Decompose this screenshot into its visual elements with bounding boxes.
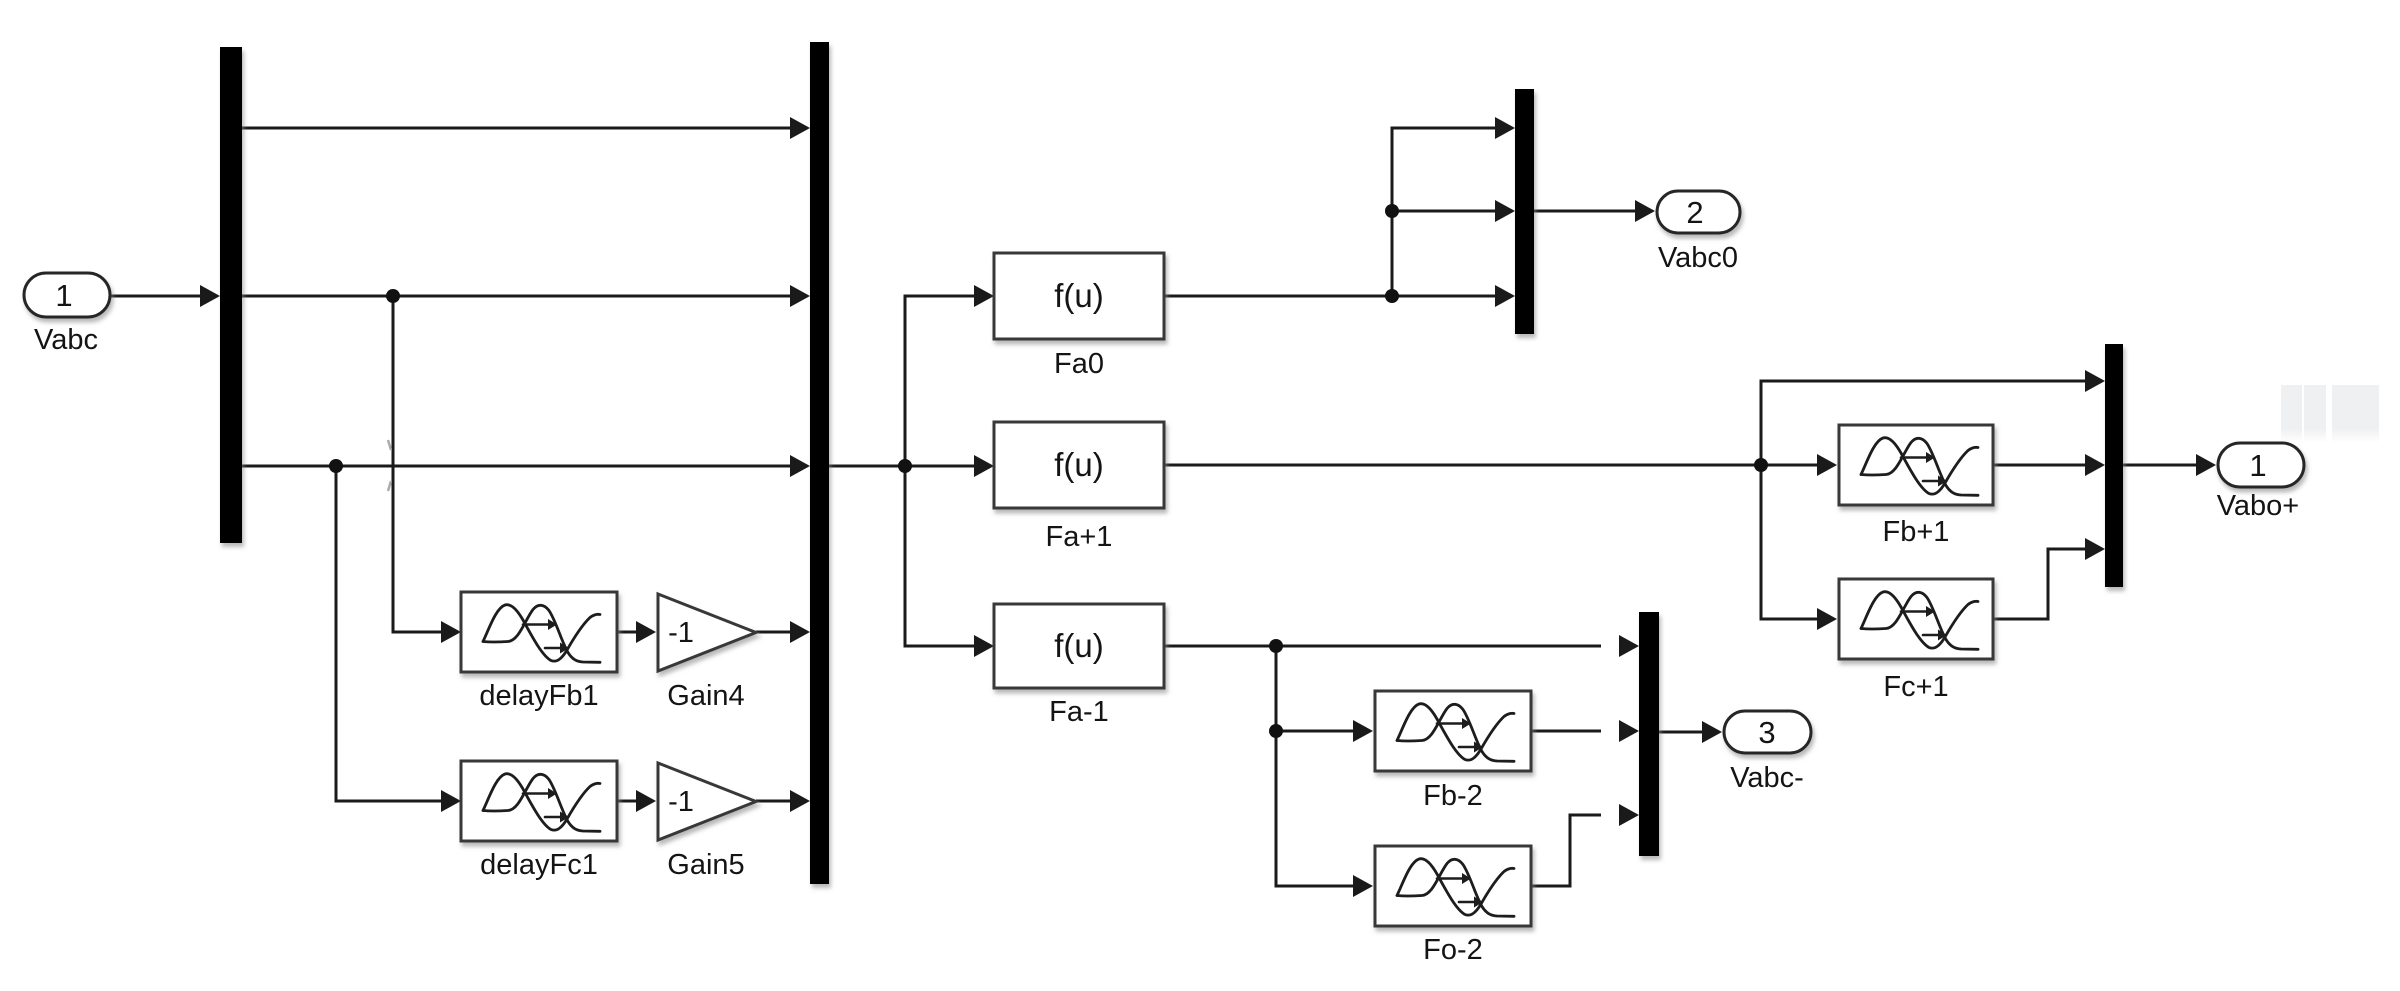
svg-text:delayFb1: delayFb1 — [479, 680, 598, 712]
svg-text:Fa+1: Fa+1 — [1046, 521, 1113, 553]
svg-text:Fa-1: Fa-1 — [1049, 696, 1109, 728]
svg-text:1: 1 — [2249, 448, 2266, 483]
svg-text:3: 3 — [1758, 715, 1775, 750]
svg-text:Fb-2: Fb-2 — [1423, 780, 1483, 812]
svg-text:f(u): f(u) — [1054, 627, 1104, 664]
svg-text:Vabc0: Vabc0 — [1658, 242, 1738, 274]
svg-text:Fc+1: Fc+1 — [1883, 671, 1948, 703]
svg-text:-1: -1 — [668, 786, 694, 818]
svg-text:-1: -1 — [668, 617, 694, 649]
svg-text:Gain5: Gain5 — [667, 849, 744, 881]
svg-text:Vabc: Vabc — [34, 324, 98, 356]
svg-text:delayFc1: delayFc1 — [480, 849, 598, 881]
svg-text:1: 1 — [55, 278, 72, 313]
svg-text:2: 2 — [1686, 195, 1703, 230]
svg-text:Fo-2: Fo-2 — [1423, 934, 1483, 966]
svg-text:Gain4: Gain4 — [667, 680, 744, 712]
svg-text:f(u): f(u) — [1054, 446, 1104, 483]
svg-text:Fa0: Fa0 — [1054, 348, 1104, 380]
svg-text:Fb+1: Fb+1 — [1883, 516, 1950, 548]
svg-text:Vabc-: Vabc- — [1730, 762, 1804, 794]
svg-text:f(u): f(u) — [1054, 277, 1104, 314]
svg-text:Vabo+: Vabo+ — [2217, 490, 2300, 522]
